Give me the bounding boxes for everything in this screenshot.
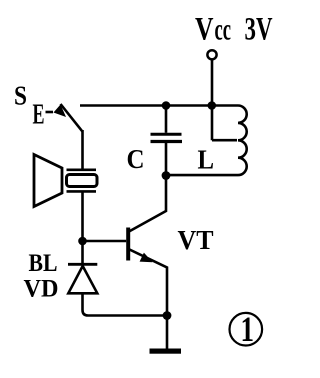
speaker BL top plate [67, 169, 97, 172]
wire Vcc drop [211, 60, 214, 141]
svg-text:L: L [198, 145, 215, 175]
wire top rail [80, 104, 238, 107]
speaker BL crystal [67, 175, 98, 187]
svg-text:VT: VT [178, 225, 214, 255]
inductor L [238, 106, 247, 176]
wire bottom rail [83, 293, 168, 315]
wire switch to speaker [81, 130, 84, 170]
diode VD triangle [68, 266, 97, 293]
switch S link dash [46, 111, 54, 114]
wire C bottom lead [165, 143, 168, 176]
wire node to diode [81, 241, 84, 264]
wire C top lead [165, 106, 168, 133]
capacitor C [151, 133, 182, 136]
switch S arm arrow [54, 105, 67, 118]
diode VD cathode bar [68, 263, 97, 266]
speaker BL horn [34, 155, 62, 207]
figure number circle 1 [230, 313, 263, 346]
svg-text:V: V [195, 12, 214, 48]
svg-text:BL: BL [29, 250, 58, 277]
svg-text:C: C [127, 144, 145, 174]
node dot Vcc rail [208, 101, 217, 110]
transistor VT emitter [130, 250, 168, 316]
svg-text:3V: 3V [245, 12, 273, 48]
wire collector lead [129, 176, 166, 232]
node dot top C [162, 101, 171, 110]
ground [150, 349, 182, 354]
transistor VT emitter arrow [140, 253, 153, 263]
node dot emitter rail [163, 311, 172, 320]
speaker BL bottom plate [67, 190, 97, 193]
svg-text:1: 1 [241, 309, 255, 349]
transistor VT base bar [126, 228, 130, 261]
node dot base [78, 237, 87, 246]
wire ground stem [166, 316, 169, 349]
wire speaker to node [81, 191, 84, 241]
svg-text:S: S [14, 80, 27, 110]
svg-text:E: E [33, 99, 45, 130]
svg-text:VD: VD [24, 276, 59, 303]
svg-text:cc: cc [215, 12, 232, 47]
wire L center tap [212, 139, 237, 142]
switch S arm [61, 104, 83, 132]
wire L bottom to node [166, 174, 238, 177]
wire base lead [83, 240, 127, 243]
Vcc terminal [207, 50, 216, 59]
node dot C bottom [162, 171, 171, 180]
